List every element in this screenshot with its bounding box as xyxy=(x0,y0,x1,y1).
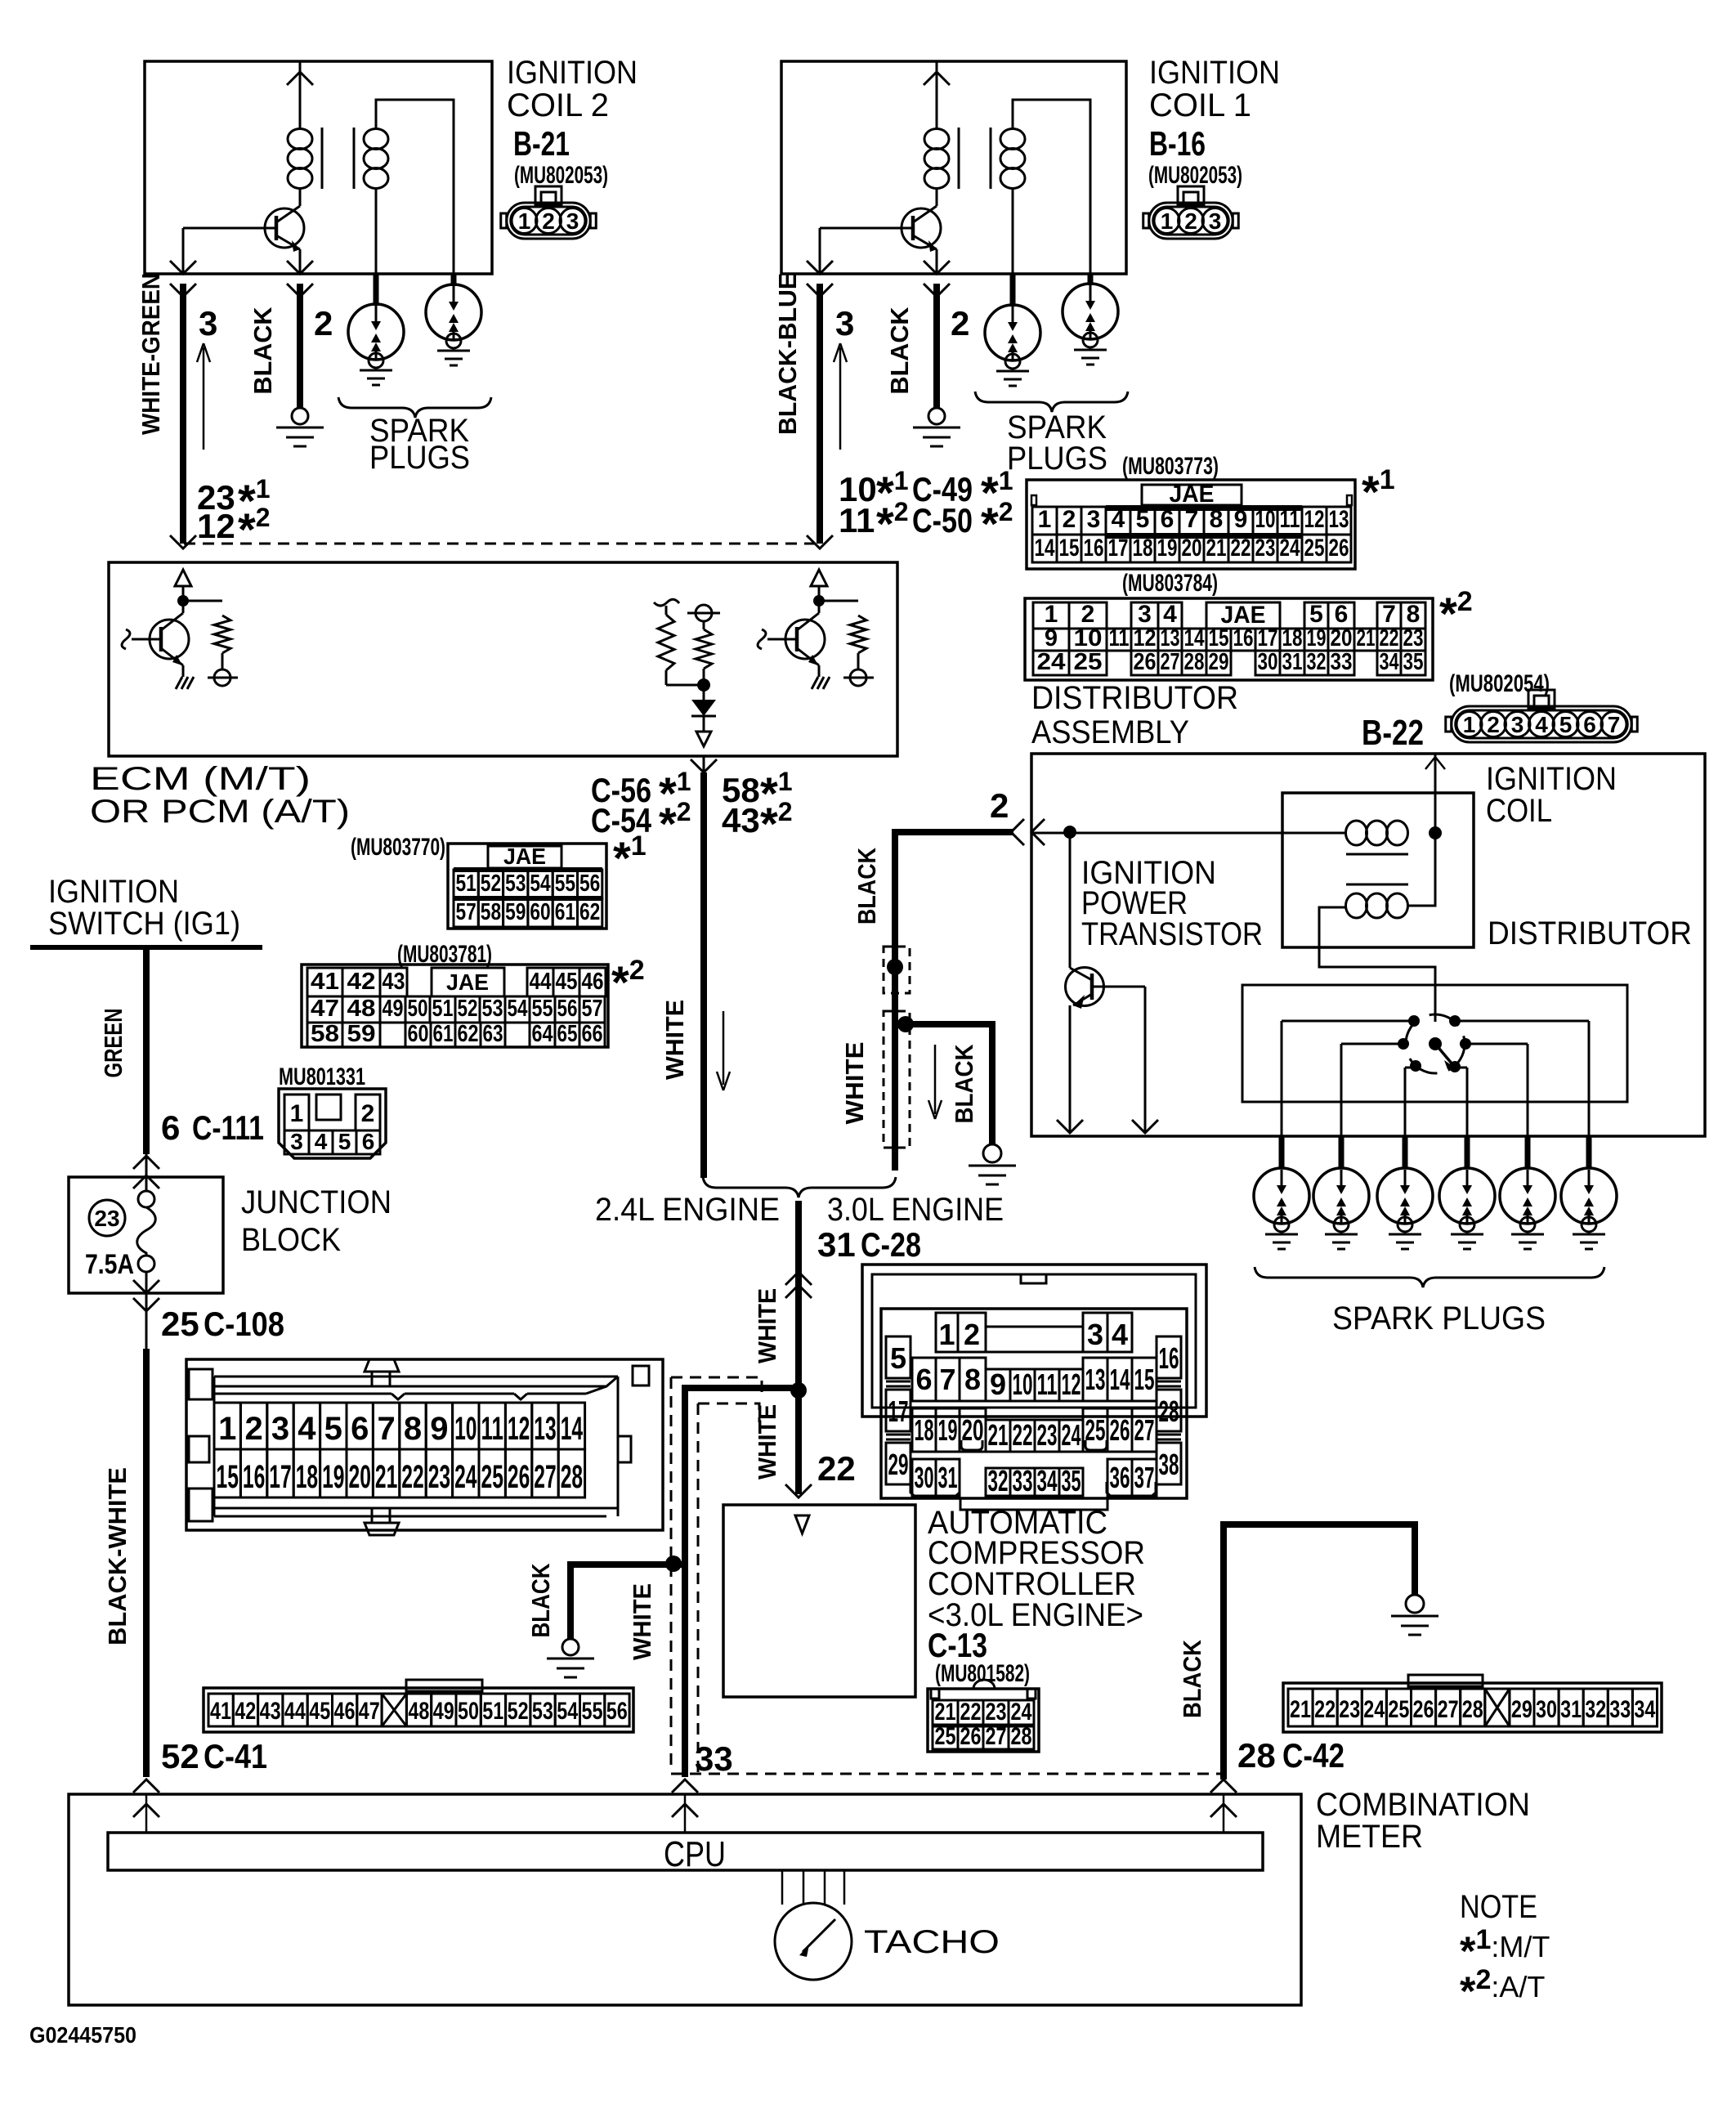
svg-text:33: 33 xyxy=(1331,649,1353,675)
svg-text:COIL 2: COIL 2 xyxy=(507,87,609,123)
ground coil2 pin2 xyxy=(292,408,308,424)
chevron meter entry 33 xyxy=(672,1804,698,1817)
svg-text:IGNITION: IGNITION xyxy=(1149,55,1280,91)
core lines coil1 xyxy=(958,128,960,189)
svg-text:33: 33 xyxy=(1609,1696,1631,1723)
dashed boundary inner xyxy=(698,1403,759,1422)
svg-text:21: 21 xyxy=(1290,1696,1311,1723)
svg-text:BLACK-BLUE: BLACK-BLUE xyxy=(773,273,802,435)
C-28 right column pins xyxy=(1157,1336,1181,1378)
C-28 left column pins xyxy=(886,1336,911,1378)
svg-text:2: 2 xyxy=(990,786,1009,825)
dashed box around 3.0L wire upper xyxy=(884,947,910,993)
svg-text:1: 1 xyxy=(218,1411,236,1447)
svg-text:35: 35 xyxy=(1062,1464,1081,1497)
svg-text:GREEN: GREEN xyxy=(99,1009,128,1078)
svg-text:23: 23 xyxy=(428,1459,450,1495)
svg-text:3: 3 xyxy=(1087,1318,1103,1351)
svg-text:B-22: B-22 xyxy=(1362,713,1424,753)
svg-text:54: 54 xyxy=(508,996,528,1022)
wire pin2 to primary coil xyxy=(1031,832,1346,835)
arrow up to B-22 xyxy=(1425,757,1445,769)
svg-text:51: 51 xyxy=(482,1698,503,1725)
wire WHITE to combination meter xyxy=(795,1201,802,1494)
svg-text:5: 5 xyxy=(338,1129,351,1154)
wire coil2 secondary top xyxy=(376,100,454,274)
svg-text:49: 49 xyxy=(383,996,404,1022)
svg-text:29: 29 xyxy=(1209,649,1229,675)
connector icon B-16 3-pin xyxy=(1178,186,1204,204)
svg-text:62: 62 xyxy=(458,1021,479,1047)
svg-text:51: 51 xyxy=(432,996,454,1022)
svg-text:25: 25 xyxy=(1388,1696,1409,1723)
inductor coil1 primary winding xyxy=(924,129,949,150)
svg-text:15: 15 xyxy=(1059,535,1080,562)
svg-text:14: 14 xyxy=(1184,625,1205,651)
C-28 row D pins xyxy=(912,1459,936,1496)
combination meter box xyxy=(69,1794,1301,2005)
svg-text:26: 26 xyxy=(960,1723,982,1750)
svg-text:2: 2 xyxy=(542,208,555,234)
svg-text:64: 64 xyxy=(532,1021,553,1047)
svg-text:3: 3 xyxy=(271,1411,289,1447)
spark plug distributor 6 xyxy=(1586,1136,1592,1169)
C-28 row C pins xyxy=(912,1408,936,1452)
inductor distributor secondary xyxy=(1346,893,1367,918)
ECM tacho resistor right with circle terminal xyxy=(696,605,712,621)
svg-text:55: 55 xyxy=(582,1698,603,1725)
svg-text:21: 21 xyxy=(1357,625,1376,651)
svg-text:22: 22 xyxy=(1380,625,1399,651)
brace spark plugs coil1 xyxy=(975,392,1128,412)
svg-text:OR PCM (A/T): OR PCM (A/T) xyxy=(90,794,350,830)
junction block box xyxy=(69,1177,223,1293)
svg-text:6: 6 xyxy=(1583,712,1596,737)
svg-text:30: 30 xyxy=(915,1461,934,1494)
svg-text:(MU801582): (MU801582) xyxy=(935,1660,1030,1687)
svg-text:2: 2 xyxy=(244,1411,262,1447)
svg-text:58: 58 xyxy=(311,1021,339,1047)
svg-text:WHITE: WHITE xyxy=(840,1042,869,1125)
svg-text:23: 23 xyxy=(1037,1418,1058,1452)
svg-text:11: 11 xyxy=(839,501,875,539)
fuse element xyxy=(138,1191,154,1207)
arrow into compressor box xyxy=(795,1515,809,1533)
ECM PCM box xyxy=(109,562,897,756)
svg-text:3: 3 xyxy=(199,304,217,342)
svg-text:30: 30 xyxy=(1258,649,1278,675)
svg-text:8: 8 xyxy=(404,1411,422,1447)
svg-text:25: 25 xyxy=(935,1723,956,1750)
svg-text:BLOCK: BLOCK xyxy=(241,1222,341,1258)
svg-text:BLACK: BLACK xyxy=(248,307,277,395)
core lines distributor coil xyxy=(1346,853,1408,856)
spark plug distributor 4 xyxy=(1465,1136,1470,1169)
cap wires plug2 xyxy=(1341,1043,1403,1045)
svg-text:TACHO: TACHO xyxy=(864,1924,1000,1960)
junction dot coil right xyxy=(1429,826,1442,839)
svg-text:COIL 1: COIL 1 xyxy=(1149,87,1251,123)
svg-text:15: 15 xyxy=(217,1459,239,1495)
wire transistor base down xyxy=(1144,987,1147,1133)
svg-text:26: 26 xyxy=(1110,1413,1130,1447)
C-108 bottom tab xyxy=(372,1508,390,1523)
svg-text:46: 46 xyxy=(582,969,604,995)
svg-text:16: 16 xyxy=(1233,625,1254,651)
svg-text:4: 4 xyxy=(1163,601,1177,628)
svg-text:61: 61 xyxy=(433,1021,454,1047)
svg-text:8: 8 xyxy=(964,1363,981,1396)
ignition coil box inside distributor xyxy=(1282,793,1474,947)
dashed boundary outer xyxy=(671,1377,762,1397)
svg-text:27: 27 xyxy=(986,1723,1007,1750)
svg-text:2: 2 xyxy=(1184,208,1197,234)
svg-text:25: 25 xyxy=(1074,649,1103,675)
svg-text:27: 27 xyxy=(1161,649,1180,675)
svg-text:6: 6 xyxy=(362,1129,375,1154)
svg-text:BLACK: BLACK xyxy=(526,1563,555,1638)
svg-text:54: 54 xyxy=(530,871,550,897)
tacho gauge wires xyxy=(781,1870,784,1905)
svg-text:WHITE: WHITE xyxy=(660,1000,689,1080)
svg-text:12: 12 xyxy=(1304,506,1325,533)
svg-text:2: 2 xyxy=(361,1100,375,1127)
svg-text:50: 50 xyxy=(458,1698,479,1725)
svg-text:BLACK: BLACK xyxy=(950,1044,978,1124)
wire BLACK-WHITE junction block to meter xyxy=(145,1272,148,1349)
svg-text:2: 2 xyxy=(964,1318,980,1351)
svg-text:44: 44 xyxy=(284,1698,306,1725)
svg-text:23: 23 xyxy=(1339,1696,1360,1723)
wire BLACK branch to ground 3.0L xyxy=(895,1024,992,1144)
svg-text:C-50: C-50 xyxy=(912,501,973,539)
svg-text:22: 22 xyxy=(960,1699,982,1726)
svg-text:27: 27 xyxy=(1438,1696,1459,1723)
svg-text:52: 52 xyxy=(508,1698,529,1725)
wire WHITE branch to 33 xyxy=(685,1388,799,1777)
svg-text:59: 59 xyxy=(347,1021,376,1047)
svg-text:16: 16 xyxy=(243,1459,265,1495)
transistor coil1 power transistor xyxy=(902,208,941,248)
svg-text:41: 41 xyxy=(311,969,339,995)
arrow up direction coil2 xyxy=(203,347,205,450)
wire coil1 primary feed xyxy=(936,61,938,129)
wire BLACK 3.0L to distributor pin2 xyxy=(895,832,1013,1171)
svg-text:DISTRIBUTOR: DISTRIBUTOR xyxy=(1488,915,1692,951)
wire WHITE from ECM pin58 xyxy=(703,756,705,772)
distributor assembly box B-22 xyxy=(1031,754,1705,1136)
ECM output open arrow down xyxy=(696,732,711,746)
svg-text:COIL: COIL xyxy=(1486,793,1552,829)
svg-text:18: 18 xyxy=(915,1413,934,1447)
svg-text:JAE: JAE xyxy=(1170,481,1215,508)
wire coil2 base lead down xyxy=(182,228,185,274)
junction dot black branch meter wire xyxy=(665,1556,682,1572)
svg-text:JAE: JAE xyxy=(503,844,546,869)
svg-text:45: 45 xyxy=(556,969,578,995)
svg-text:28: 28 xyxy=(561,1459,583,1495)
svg-text:34: 34 xyxy=(1634,1696,1655,1723)
svg-text:13: 13 xyxy=(1161,625,1180,651)
C-28 row B pins xyxy=(912,1358,936,1401)
svg-text:50: 50 xyxy=(408,996,428,1022)
ground coil1 pin2 xyxy=(928,408,945,424)
svg-text:52: 52 xyxy=(458,996,478,1022)
svg-text:66: 66 xyxy=(582,1021,603,1047)
svg-text:34: 34 xyxy=(1037,1464,1058,1497)
wire BLACK branch to ground left xyxy=(570,1565,685,1639)
svg-text:WHITE: WHITE xyxy=(628,1583,656,1660)
svg-text:26: 26 xyxy=(1329,535,1349,562)
arrow down 3.0L xyxy=(934,1045,937,1114)
rotor contact dots xyxy=(1408,1015,1420,1027)
wire BLACK pin2 coil2 to ground xyxy=(287,284,313,297)
ECM diode to output xyxy=(691,700,716,716)
brace spark plugs coil2 xyxy=(338,397,491,418)
svg-text:1: 1 xyxy=(938,1318,955,1351)
svg-text:PLUGS: PLUGS xyxy=(369,440,470,476)
svg-text:12: 12 xyxy=(508,1411,530,1447)
svg-text:42: 42 xyxy=(235,1698,256,1725)
svg-text:55: 55 xyxy=(532,996,553,1022)
spark plug distributor 2 xyxy=(1339,1136,1345,1169)
arrow down 2.4L white wire xyxy=(723,1011,725,1085)
svg-text:32: 32 xyxy=(1585,1696,1606,1723)
chevron coil2 pin3 at box edge xyxy=(170,261,196,274)
svg-text:B-16: B-16 xyxy=(1149,124,1206,163)
C-108 side tabs left xyxy=(189,1369,213,1399)
svg-text:1: 1 xyxy=(518,208,531,234)
svg-text:28: 28 xyxy=(1011,1723,1032,1750)
wire coil1 secondary top xyxy=(1013,100,1090,274)
junction dot 3.0L upper xyxy=(887,959,903,975)
svg-text:22: 22 xyxy=(1013,1418,1033,1452)
svg-text:2: 2 xyxy=(1487,712,1500,737)
connector icon B-22 7-pin xyxy=(1528,690,1555,708)
svg-text:65: 65 xyxy=(557,1021,578,1047)
connector C-42 xyxy=(1283,1683,1662,1732)
chevron up at coil1 top xyxy=(924,72,950,85)
distributor rotor circle xyxy=(1406,1014,1465,1073)
svg-text:56: 56 xyxy=(557,996,578,1022)
cap wires plug5 xyxy=(1465,1043,1528,1045)
svg-text:7: 7 xyxy=(1608,712,1621,737)
ECM right driver transistor group xyxy=(811,570,827,586)
svg-text:46: 46 xyxy=(334,1698,356,1725)
svg-text:JAE: JAE xyxy=(446,969,489,995)
rotor center dot and arm xyxy=(1429,1037,1442,1050)
core lines coil2 xyxy=(321,128,324,189)
spark plug coil1 left xyxy=(1010,274,1016,307)
transistor coil2 power transistor xyxy=(265,208,304,248)
inductor coil2 secondary winding xyxy=(364,129,388,150)
shade bars MU803773 xyxy=(1106,505,1302,511)
svg-text:11: 11 xyxy=(1037,1368,1058,1401)
svg-text:57: 57 xyxy=(456,899,477,925)
svg-text:34: 34 xyxy=(1380,649,1399,675)
svg-text:(MU803773): (MU803773) xyxy=(1122,453,1219,480)
svg-text:5: 5 xyxy=(1559,712,1573,737)
svg-text:25: 25 xyxy=(1085,1413,1106,1447)
brace spark plugs distributor xyxy=(1255,1267,1604,1287)
wire 28 into CPU xyxy=(1223,1794,1225,1833)
svg-text:9: 9 xyxy=(430,1411,448,1447)
svg-text:49: 49 xyxy=(433,1698,454,1725)
connector icon B-21 3-pin xyxy=(535,186,562,204)
chevron C-108 crossing xyxy=(133,1298,159,1311)
svg-text:25: 25 xyxy=(481,1459,503,1495)
C-28 wide slot xyxy=(986,1327,1083,1352)
automatic compressor controller box xyxy=(723,1505,915,1697)
dashed boundary bottom xyxy=(671,1773,1220,1775)
svg-text:METER: METER xyxy=(1316,1819,1423,1855)
svg-text:44: 44 xyxy=(530,969,552,995)
ground black branch left xyxy=(562,1639,579,1655)
junction dot transistor feed xyxy=(1063,826,1076,839)
svg-text:23: 23 xyxy=(1403,625,1424,651)
svg-text:20: 20 xyxy=(962,1413,984,1447)
svg-text:27: 27 xyxy=(1134,1413,1155,1447)
wire coil2 secondary bottom to plug xyxy=(375,189,378,274)
svg-text:15: 15 xyxy=(1134,1363,1155,1396)
inductor coil1 secondary winding xyxy=(1000,129,1025,150)
svg-text:12: 12 xyxy=(1062,1368,1081,1401)
wire coil1 base lead down xyxy=(819,228,821,274)
svg-text:BLACK-WHITE: BLACK-WHITE xyxy=(103,1467,132,1645)
C-108 top tab xyxy=(365,1359,399,1372)
svg-text:52: 52 xyxy=(161,1737,199,1775)
svg-text:(MU803784): (MU803784) xyxy=(1122,570,1218,597)
svg-text:63: 63 xyxy=(483,1021,503,1047)
connector C-41 xyxy=(204,1688,633,1732)
svg-text:CPU: CPU xyxy=(664,1834,726,1874)
distributor cap outer rect xyxy=(1242,985,1627,1102)
svg-text:2: 2 xyxy=(951,304,969,342)
svg-text:3: 3 xyxy=(835,304,854,342)
chevron junction block entry xyxy=(133,1175,159,1189)
svg-text:19: 19 xyxy=(322,1459,344,1495)
svg-text:(MU802053): (MU802053) xyxy=(1148,162,1242,189)
svg-text:14: 14 xyxy=(1035,535,1055,562)
svg-text:C-41: C-41 xyxy=(204,1737,267,1775)
chevron pin2 wire end xyxy=(1011,819,1024,845)
wire B-22 pin to ignition coil xyxy=(1434,754,1437,833)
svg-text:10: 10 xyxy=(1013,1368,1033,1401)
svg-text:26: 26 xyxy=(1134,649,1157,675)
svg-text:31: 31 xyxy=(938,1461,958,1494)
C-108 housing notches xyxy=(391,1394,405,1399)
svg-text:14: 14 xyxy=(561,1411,584,1447)
svg-text:10: 10 xyxy=(1074,625,1103,651)
C-28 bottom tab xyxy=(960,1498,1107,1510)
svg-text:29: 29 xyxy=(888,1448,909,1481)
svg-text:WHITE-GREEN: WHITE-GREEN xyxy=(136,273,165,435)
tacho gauge circle xyxy=(775,1903,852,1980)
svg-text:14: 14 xyxy=(1110,1363,1130,1396)
svg-text:2: 2 xyxy=(1081,601,1095,628)
svg-text:(MU802054): (MU802054) xyxy=(1449,670,1550,697)
spark plug coil2 left xyxy=(374,274,379,306)
svg-text:24: 24 xyxy=(1062,1418,1081,1452)
fuse 23 circled label xyxy=(89,1200,125,1236)
svg-text:B-21: B-21 xyxy=(513,124,570,163)
svg-text:DISTRIBUTOR: DISTRIBUTOR xyxy=(1031,680,1238,716)
svg-text:17: 17 xyxy=(888,1394,909,1428)
svg-text:IGNITION: IGNITION xyxy=(48,874,179,910)
wire 33 into CPU xyxy=(684,1794,687,1833)
svg-text:12: 12 xyxy=(197,507,235,545)
tacho needle xyxy=(803,1919,835,1952)
svg-text:PLUGS: PLUGS xyxy=(1007,441,1107,477)
svg-text:C-28: C-28 xyxy=(861,1225,921,1264)
svg-text:36: 36 xyxy=(1110,1461,1130,1494)
svg-text:57: 57 xyxy=(582,996,603,1022)
ECM junction dot diode xyxy=(697,678,710,692)
wire GREEN to junction block xyxy=(143,947,150,1154)
svg-text:53: 53 xyxy=(505,871,526,897)
svg-text:2: 2 xyxy=(314,304,333,342)
svg-text:28: 28 xyxy=(1184,649,1205,675)
chevron right end dashed xyxy=(807,535,833,548)
wire secondary right to top xyxy=(1407,833,1435,906)
svg-text:3.0L ENGINE: 3.0L ENGINE xyxy=(827,1192,1004,1228)
svg-text:29: 29 xyxy=(1511,1696,1532,1723)
svg-text:43: 43 xyxy=(383,969,405,995)
svg-text:54: 54 xyxy=(557,1698,578,1725)
inductor distributor primary xyxy=(1346,821,1367,845)
svg-text:19: 19 xyxy=(1307,625,1327,651)
svg-text:43: 43 xyxy=(260,1698,281,1725)
wire 52 into CPU xyxy=(145,1794,148,1833)
svg-text:61: 61 xyxy=(555,899,575,925)
spark plug distributor 5 xyxy=(1525,1136,1531,1169)
svg-text:IGNITION: IGNITION xyxy=(507,55,638,91)
svg-text:3: 3 xyxy=(290,1129,303,1154)
svg-text:C-111: C-111 xyxy=(192,1108,264,1147)
chevron C-42 crossing xyxy=(1210,1779,1237,1793)
ground 3.0L black branch xyxy=(983,1144,1001,1162)
chevron up at coil2 top xyxy=(287,72,313,85)
svg-text:13: 13 xyxy=(1329,506,1349,533)
spark plug distributor 3 xyxy=(1403,1136,1408,1169)
C-108 pin grid xyxy=(214,1403,240,1449)
svg-text:60: 60 xyxy=(408,1021,429,1047)
svg-text:60: 60 xyxy=(530,899,550,925)
svg-text:33: 33 xyxy=(1013,1464,1033,1497)
svg-text:27: 27 xyxy=(534,1459,556,1495)
svg-text:1: 1 xyxy=(1161,208,1174,234)
svg-text:3: 3 xyxy=(1209,208,1222,234)
svg-text:ASSEMBLY: ASSEMBLY xyxy=(1031,714,1189,750)
cap wires plug4 xyxy=(1455,1067,1467,1069)
svg-text:2.4L ENGINE: 2.4L ENGINE xyxy=(595,1192,780,1228)
svg-text:43: 43 xyxy=(722,801,760,839)
chevron coil2 pin2 at box edge xyxy=(287,261,313,274)
svg-text:10: 10 xyxy=(454,1411,477,1447)
svg-text:28: 28 xyxy=(1237,1736,1276,1775)
C-28 under notches xyxy=(961,1440,982,1450)
svg-text:31: 31 xyxy=(1282,649,1303,675)
svg-text:7.5A: 7.5A xyxy=(85,1249,134,1280)
svg-text:33: 33 xyxy=(695,1739,733,1778)
svg-text:42: 42 xyxy=(347,969,376,995)
svg-text:18: 18 xyxy=(296,1459,318,1495)
svg-text:6: 6 xyxy=(915,1363,932,1396)
cap wires plug1 xyxy=(1282,1020,1414,1023)
svg-text:31: 31 xyxy=(1560,1696,1582,1723)
svg-text:2: 2 xyxy=(1063,506,1076,533)
svg-text:22: 22 xyxy=(817,1449,856,1488)
